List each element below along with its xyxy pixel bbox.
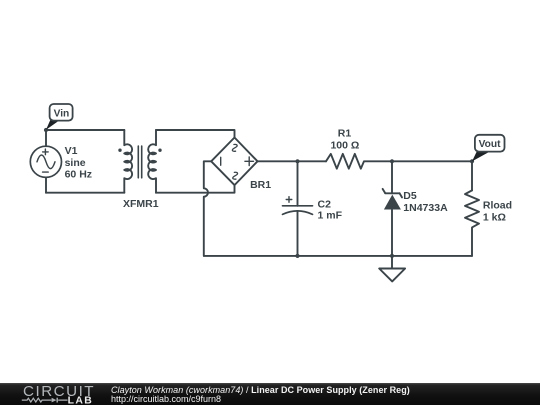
svg-text:1 mF: 1 mF: [318, 209, 343, 221]
svg-text:LAB: LAB: [68, 395, 94, 405]
svg-text:BR1: BR1: [250, 179, 271, 191]
svg-text:100 Ω: 100 Ω: [330, 139, 359, 151]
svg-text:XFMR1: XFMR1: [123, 198, 159, 210]
svg-text:V1: V1: [65, 145, 78, 157]
svg-text:R1: R1: [338, 127, 352, 139]
svg-text:sine: sine: [65, 157, 86, 169]
svg-text:60 Hz: 60 Hz: [65, 169, 92, 181]
svg-text:1 kΩ: 1 kΩ: [483, 211, 506, 223]
svg-text:D5: D5: [403, 190, 417, 202]
svg-text:Rload: Rload: [483, 200, 512, 212]
svg-text:Vout: Vout: [479, 139, 501, 150]
svg-text:Vin: Vin: [54, 108, 70, 119]
svg-text:1N4733A: 1N4733A: [403, 202, 448, 214]
